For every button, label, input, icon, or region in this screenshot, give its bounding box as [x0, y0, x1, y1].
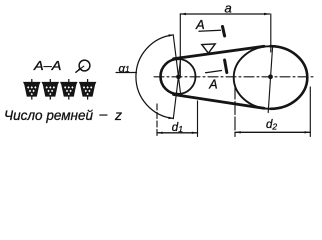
svg-text:–: –	[99, 106, 108, 122]
svg-text:d2: d2	[266, 119, 277, 132]
svg-text:α1: α1	[119, 63, 130, 75]
svg-text:A: A	[208, 77, 217, 91]
svg-text:A–A: A–A	[33, 59, 62, 73]
svg-text:A: A	[195, 17, 205, 32]
svg-text:a: a	[225, 1, 232, 16]
svg-text:Число ремней: Число ремней	[4, 107, 93, 123]
svg-text:d1: d1	[172, 122, 183, 134]
svg-text:z: z	[114, 107, 122, 123]
